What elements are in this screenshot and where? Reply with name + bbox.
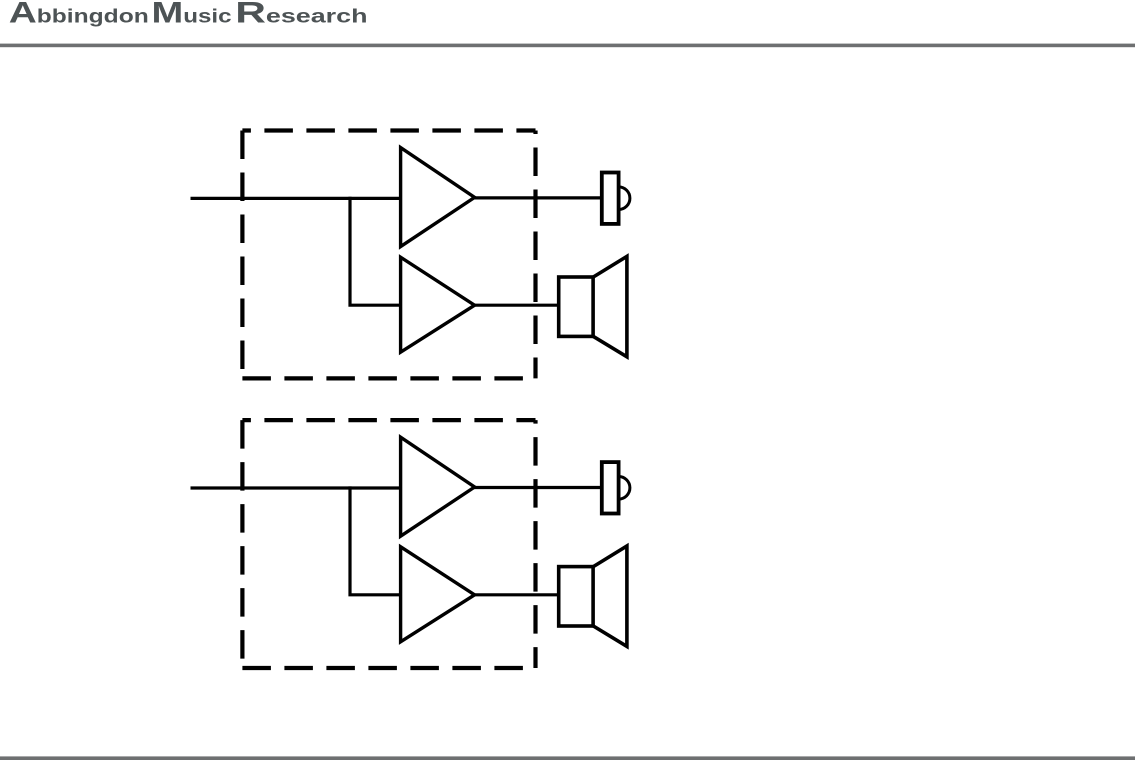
amplifier A4 (bass) [401, 547, 475, 642]
dashed amplifier enclosure 1 left edge [240, 131, 244, 379]
dashed amplifier enclosure 1 top edge [242, 128, 535, 132]
dashed amplifier enclosure 1 bottom edge [242, 376, 535, 380]
input wire 2 [191, 486, 403, 489]
header rule [0, 44, 1135, 48]
amplifier A2 (bass) [401, 257, 475, 352]
woofer LS2 body [559, 277, 593, 336]
woofer LS4 horn [593, 546, 627, 646]
wire A4 to woofer [473, 593, 560, 596]
tweeter LS3 dome [619, 477, 630, 500]
amplifier A1 (treble) [401, 148, 475, 247]
footer rule [0, 756, 1135, 760]
branch wire to lower amp 1 [350, 197, 402, 305]
dashed amplifier enclosure 2 bottom edge [242, 666, 535, 670]
dashed amplifier enclosure 2 right edge [533, 420, 537, 668]
tweeter LS1 body [602, 173, 619, 224]
svg-text:Research: Research [235, 0, 367, 29]
wire A2 to woofer [473, 304, 560, 307]
svg-text:Music: Music [152, 0, 232, 29]
wire A1 to tweeter [473, 196, 602, 199]
woofer LS2 horn [593, 256, 627, 356]
woofer LS4 body [559, 567, 593, 626]
dashed amplifier enclosure 1 right edge [533, 131, 537, 379]
tweeter LS3 body [602, 462, 619, 513]
branch wire to lower amp 2 [350, 486, 402, 594]
dashed amplifier enclosure 2 top edge [242, 418, 535, 422]
tweeter LS1 dome [619, 187, 630, 210]
amplifier A3 (treble) [401, 437, 475, 536]
input wire 1 [191, 197, 403, 200]
dashed amplifier enclosure 2 left edge [240, 420, 244, 668]
svg-text:Abbingdon: Abbingdon [9, 0, 149, 29]
wire A3 to tweeter [473, 486, 602, 489]
logo: Abbingdon Music Research [9, 0, 368, 29]
